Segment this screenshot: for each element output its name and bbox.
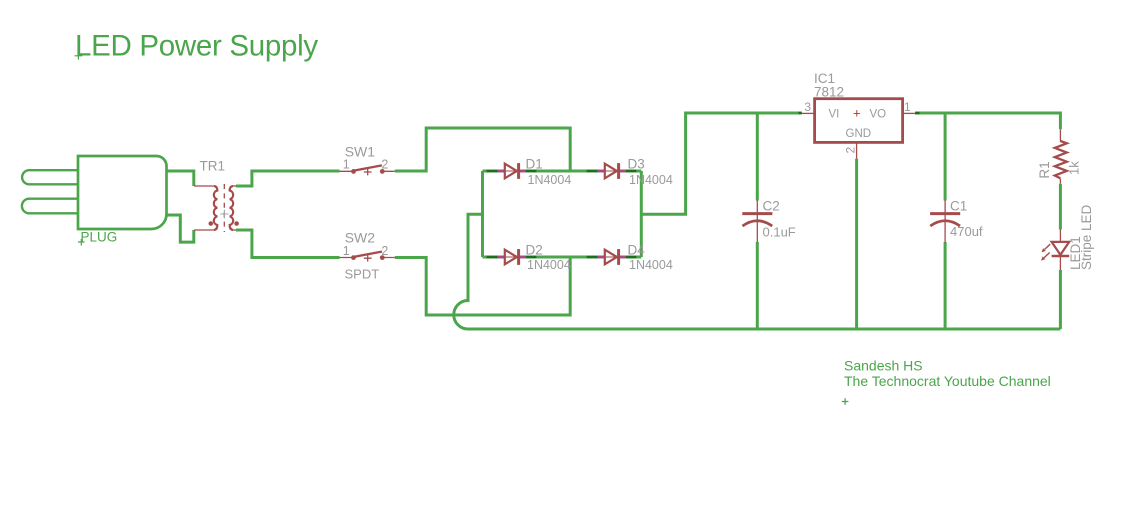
wire bridge bottom row [483,256,642,259]
plug origin cross [78,239,85,246]
svg-text:7812: 7812 [814,85,844,100]
capacitor C2 [742,113,772,329]
svg-text:The Technocrat Youtube Channel: The Technocrat Youtube Channel [844,373,1051,389]
wire bridge left vertical [481,171,484,257]
TR1 secondary coil [230,186,233,230]
svg-text:SPDT: SPDT [345,267,380,282]
svg-text:0.1uF: 0.1uF [763,225,796,240]
plug PLUG body [78,156,167,229]
TR1 primary coil [214,186,217,230]
TR1 phase dot left [209,221,214,226]
wire TR1 bottom-right to SW2 [236,230,340,258]
wire TR1 top-right to SW1 [236,171,340,186]
wire R1 to LED1 [1059,184,1062,230]
svg-text:LED Power Supply: LED Power Supply [75,30,318,63]
plug prong top [22,170,78,184]
TR1 pin bottom-left [194,229,214,231]
wire bridge right vertical [640,171,643,257]
switch SW2 [340,252,395,262]
wire bridge positive tap to IC1 input [641,113,801,214]
TR1 pin 1 top-left [194,185,214,187]
svg-text:PLUG: PLUG [81,230,118,245]
svg-text:3: 3 [804,100,811,114]
wire LED1 to bottom rail [1059,270,1062,329]
svg-text:C1: C1 [950,199,967,214]
svg-text:+: + [853,106,861,121]
transformer TR1 [194,184,247,232]
svg-text:2: 2 [381,158,388,172]
svg-text:1N4004: 1N4004 [629,173,673,187]
svg-text:470uf: 470uf [950,224,983,239]
svg-text:D1: D1 [526,157,543,172]
IC1 pin connection nib left [799,112,802,115]
wire SW2 to bridge bottom [395,257,570,315]
svg-text:TR1: TR1 [200,159,226,174]
TR1 pin top-right [233,185,247,187]
svg-text:VO: VO [870,109,887,121]
svg-text:1: 1 [904,100,911,114]
diode D1 [487,163,537,179]
svg-text:2: 2 [844,147,858,154]
wire SW1 to bridge top [395,128,570,171]
LED LED1 [1041,230,1069,271]
svg-text:Sandesh HS: Sandesh HS [844,358,923,374]
svg-text:VI: VI [829,109,840,121]
plug prong bottom [22,199,79,214]
svg-text:1: 1 [343,244,350,258]
svg-text:1N4004: 1N4004 [527,258,571,272]
svg-text:GND: GND [846,128,872,140]
svg-text:D4: D4 [628,243,646,258]
switch SW1 [340,165,395,175]
wire IC1 GND to bottom rail [855,159,858,329]
IC1 pin connection nib right [915,112,919,115]
svg-text:R1: R1 [1037,161,1052,178]
wire plug top to TR1 [166,171,194,186]
TR1 pin bottom-right [233,229,247,231]
wire bridge top row [483,170,642,173]
wire bridge negative tap, arc and bottom rail [454,214,1061,329]
svg-text:2: 2 [381,244,388,258]
footer origin cross [842,398,849,405]
diode D2 [487,249,537,265]
wire IC1 output rail to R1 branch [915,113,1060,129]
wire plug bottom to TR1 [166,215,194,242]
capacitor C1 [930,113,960,329]
svg-text:1k: 1k [1067,161,1082,175]
diode D4 [587,249,637,265]
TR1 origin cross [220,210,228,218]
svg-text:D3: D3 [628,157,645,172]
diode D3 [587,163,637,179]
resistor R1 [1055,129,1067,184]
svg-text:D2: D2 [526,243,543,258]
svg-text:1N4004: 1N4004 [528,173,572,187]
svg-text:1N4004: 1N4004 [629,258,673,272]
svg-text:Stripe LED: Stripe LED [1079,204,1094,270]
svg-text:C2: C2 [763,199,780,214]
TR1 phase dot right [234,221,239,226]
IC1 7812 regulator [801,99,916,159]
title origin cross [75,52,83,60]
svg-text:1: 1 [343,158,350,172]
TR1 core dashed line [223,184,225,232]
